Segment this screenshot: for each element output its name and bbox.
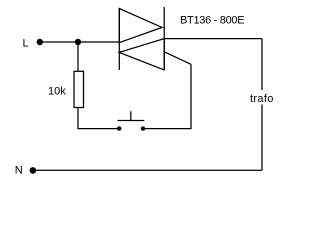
svg-text:10k: 10k: [48, 85, 66, 97]
wire bottom N: [33, 169, 262, 171]
svg-text:N: N: [15, 164, 23, 176]
wire trafo vertical: [261, 39, 263, 171]
node junction: [75, 39, 81, 45]
wire L to triac MT1: [40, 41, 120, 43]
svg-text:trafo: trafo: [250, 93, 274, 105]
node L: [37, 39, 43, 45]
wire switch to gate corner: [145, 64, 191, 128]
wire junction to resistor: [77, 42, 79, 71]
resistor R1: [74, 71, 84, 107]
svg-text:BT136 - 800E: BT136 - 800E: [180, 15, 244, 27]
wire resistor to switch: [78, 108, 117, 129]
pushbutton S1: [117, 111, 145, 131]
svg-text:L: L: [23, 37, 29, 49]
wire gate lead: [164, 52, 191, 65]
triac Q1 BT136: [119, 7, 164, 70]
label trafo: [249, 90, 276, 105]
wire MT2 to trafo: [164, 38, 262, 40]
node N: [30, 167, 37, 174]
